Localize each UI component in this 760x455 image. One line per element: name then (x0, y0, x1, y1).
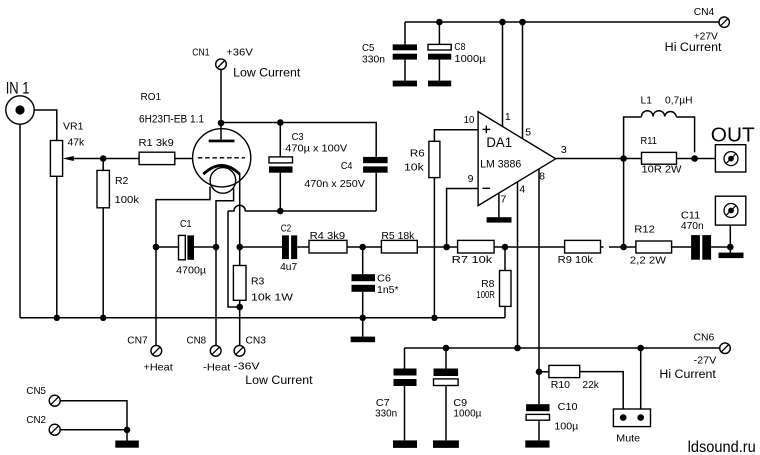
svg-text:L1: L1 (641, 94, 653, 106)
svg-text:100k: 100k (115, 194, 140, 206)
resistor R2 (97, 159, 140, 318)
grid dashed line (198, 157, 245, 159)
svg-text:6Н23П-ЕВ 1.1: 6Н23П-ЕВ 1.1 (139, 113, 204, 125)
svg-text:R12: R12 (634, 224, 655, 236)
svg-text:0,7µH: 0,7µH (665, 94, 693, 106)
wire: pin 9 inverting input (447, 189, 479, 248)
resistor R12 (624, 224, 692, 267)
svg-text:Hi Current: Hi Current (665, 40, 722, 54)
resistor R9 (505, 240, 624, 265)
wire: anode junction to C3 (221, 122, 280, 124)
wire: pin 5 from top rail (522, 22, 524, 141)
node: CN5/CN2 junction (124, 427, 131, 434)
svg-text:R10: R10 (551, 379, 570, 391)
svg-text:4: 4 (519, 183, 525, 195)
wire: output node down to feedback row (623, 159, 625, 248)
cathode arc (203, 166, 240, 175)
wire: output pin 3 (556, 158, 624, 160)
svg-text:DA1: DA1 (486, 135, 512, 150)
wire: ground rail (20, 317, 505, 319)
svg-text:R6: R6 (410, 147, 425, 159)
capacitor C4 (304, 157, 387, 211)
svg-text:-36V: -36V (234, 360, 260, 372)
svg-text:CN6: CN6 (694, 332, 715, 344)
svg-text:470n: 470n (681, 220, 704, 232)
capacitor C9 (polarized) (434, 348, 482, 440)
svg-text:5: 5 (525, 127, 531, 139)
output jack OUT (hot) (711, 124, 755, 172)
node: R6/R8 on ground rail (431, 315, 437, 321)
ground symbol C9 (433, 440, 459, 448)
svg-text:8: 8 (539, 170, 545, 182)
resistor R6 (404, 130, 478, 318)
wire: IN1 center to VR1 top (34, 110, 57, 141)
svg-text:Hi Current: Hi Current (659, 367, 716, 381)
svg-text:IN 1: IN 1 (6, 80, 30, 98)
svg-text:Low Current: Low Current (245, 373, 313, 387)
node: output junction (620, 155, 627, 162)
triode RO1 6N23P-EV (139, 91, 251, 193)
svg-text:CN5: CN5 (26, 385, 46, 397)
op-amp DA1 LM 3886 (464, 111, 567, 206)
svg-text:C5: C5 (362, 42, 375, 54)
node: R9/R12/output junction (620, 244, 627, 251)
node: C6 on ground rail (359, 315, 366, 322)
node: pin9 / R5 / R7 junction (443, 244, 450, 251)
wire: heater pin right to C1 right (216, 189, 234, 248)
svg-text:CN3: CN3 (246, 335, 267, 347)
node: cathode / R3 / C2 junction (236, 244, 243, 251)
wire: rail down to R3 bottom (228, 211, 240, 307)
svg-text:CN2: CN2 (26, 414, 46, 426)
wire: cathode down to signal rail (239, 174, 241, 247)
node: R4/R5/C6 junction (359, 244, 366, 251)
node: C11 / jack ground (727, 244, 734, 251)
svg-text:R2: R2 (115, 175, 129, 187)
wire: to OUT jack (695, 158, 716, 160)
svg-text:-Heat: -Heat (203, 361, 230, 373)
capacitor C1 (polarized) (153, 218, 220, 276)
svg-text:7: 7 (501, 193, 507, 205)
resistor R8 (476, 247, 511, 318)
node: C9 on negative rail (443, 345, 450, 352)
connector CN1 (192, 47, 301, 123)
svg-text:470µ x 100V: 470µ x 100V (285, 143, 347, 155)
capacitor C3 (polarized) (269, 119, 347, 211)
node: anode / CN1 junction (218, 120, 225, 127)
resistor R7 (447, 240, 505, 265)
ground symbol CN5/CN2 (126, 430, 128, 441)
wire: pin 8 down to mute network (538, 168, 540, 372)
svg-text:C1: C1 (180, 218, 192, 230)
resistor R10 (539, 365, 623, 409)
heater bump (210, 168, 236, 194)
mute switch (613, 348, 650, 445)
node: pin8 / R10 / C10 junction (536, 369, 543, 376)
node: pin5 on top rail (519, 19, 526, 26)
svg-text:22k: 22k (582, 379, 599, 391)
output jack (ground) (715, 196, 745, 247)
input jack IN 1 (6, 80, 35, 125)
wire: C3/C4 bottom rail with hop over cathode line (228, 205, 376, 211)
svg-text:47k: 47k (68, 137, 85, 149)
inductor L1 (624, 94, 695, 158)
svg-text:LM 3886: LM 3886 (480, 159, 521, 171)
capacitor C11 (681, 209, 730, 259)
svg-text:R7 10k: R7 10k (452, 254, 493, 266)
connector CN5 (26, 385, 127, 430)
ground symbol output (729, 247, 731, 253)
ground symbol below C6 (362, 318, 364, 337)
node: R2 bottom on ground rail (100, 315, 106, 321)
potentiometer VR1 (50, 121, 84, 318)
svg-text:4700µ: 4700µ (176, 264, 206, 276)
svg-text:100µ: 100µ (554, 420, 578, 432)
svg-text:R8: R8 (481, 278, 495, 290)
wire: negative supply rail (405, 347, 720, 349)
node: R7/R8 junction (502, 244, 509, 251)
node: wiper / R1 / R2 junction (100, 155, 107, 162)
svg-text:4u7: 4u7 (280, 261, 297, 273)
svg-text:C2: C2 (281, 222, 292, 234)
connector CN7 +Heat (127, 247, 173, 373)
wire: IN1 ground down (19, 124, 21, 318)
capacitor C5 (362, 22, 417, 81)
ground symbol C10 (525, 440, 549, 447)
capacitor C2 (240, 222, 309, 273)
capacitor C10 (polarized) (526, 372, 578, 441)
node: R3 bottom / CN3 (236, 304, 243, 311)
svg-text:10: 10 (464, 114, 475, 126)
node: mute on negative rail (637, 345, 644, 352)
svg-text:VR1: VR1 (63, 121, 84, 133)
ground symbol C7 (393, 440, 417, 448)
wire: pin 7 to ground (498, 191, 500, 217)
svg-text:-27V: -27V (694, 355, 717, 367)
resistor R5 (363, 230, 447, 253)
svg-text:470n x 250V: 470n x 250V (304, 178, 365, 190)
wire: pin 4 down to negative rail (517, 180, 519, 348)
svg-text:1: 1 (505, 111, 511, 123)
svg-text:R1 3k9: R1 3k9 (139, 137, 174, 149)
node: C8 on top rail (436, 19, 443, 26)
resistor R3 (233, 247, 293, 307)
resistor R4 (309, 230, 363, 253)
connector CN2 (26, 414, 127, 435)
svg-text:Mute: Mute (616, 433, 640, 445)
svg-text:OUT: OUT (711, 124, 755, 146)
svg-text:CN4: CN4 (694, 6, 715, 18)
svg-text:+36V: +36V (226, 47, 253, 59)
resistor R11 (624, 135, 695, 175)
svg-text:CN1: CN1 (192, 47, 209, 59)
svg-text:C4: C4 (341, 160, 353, 172)
svg-text:R3: R3 (251, 276, 265, 288)
svg-text:C6: C6 (377, 273, 391, 285)
node: pin1 on top rail (499, 19, 506, 26)
svg-text:100R: 100R (476, 289, 495, 301)
node: R11/L1 right junction (691, 155, 698, 162)
svg-text:+Heat: +Heat (144, 361, 173, 373)
svg-text:10k: 10k (404, 162, 425, 174)
svg-text:Low Current: Low Current (233, 65, 301, 79)
svg-text:R11: R11 (641, 135, 658, 147)
svg-text:10R 2W: 10R 2W (642, 164, 682, 176)
wire: heater pin left to C1 left (156, 187, 210, 248)
svg-text:C3: C3 (292, 131, 304, 143)
capacitor C7 (375, 348, 416, 440)
svg-text:1000µ: 1000µ (454, 53, 485, 65)
wire: positive top rail (405, 21, 719, 23)
ground symbol C5 (393, 81, 417, 87)
svg-text:ldsound.ru: ldsound.ru (688, 439, 756, 455)
connector CN3 -36V (234, 307, 313, 387)
svg-text:R4 3k9: R4 3k9 (310, 230, 346, 242)
node: C3 bottom (277, 208, 284, 215)
VR1 wiper arrow (63, 156, 103, 161)
capacitor C8 (polarized) (428, 22, 486, 81)
node: pin4 on negative rail (514, 345, 521, 352)
svg-text:1n5*: 1n5* (377, 284, 399, 296)
connector CN8 -Heat (187, 247, 231, 373)
svg-text:CN8: CN8 (187, 335, 207, 347)
svg-text:330n: 330n (362, 54, 385, 66)
svg-text:CN7: CN7 (127, 335, 148, 347)
svg-text:9: 9 (468, 173, 474, 185)
svg-text:2,2 2W: 2,2 2W (630, 254, 666, 266)
svg-text:R9 10k: R9 10k (558, 254, 594, 266)
wire: top link C3 to C4 (280, 123, 376, 157)
ground symbol C8 (428, 81, 451, 87)
connector CN4 (665, 6, 730, 54)
svg-text:C8: C8 (454, 41, 465, 53)
node: VR1 bottom on ground rail (54, 315, 60, 321)
wire: pin 1 from top rail (502, 22, 504, 128)
svg-text:1000µ: 1000µ (453, 407, 481, 419)
ground symbol pin 7 (487, 217, 512, 222)
svg-text:3: 3 (561, 144, 567, 156)
svg-text:R5 18k: R5 18k (381, 230, 415, 242)
svg-text:330n: 330n (375, 407, 397, 419)
capacitor C6 (352, 247, 399, 318)
svg-text:10k 1W: 10k 1W (251, 292, 293, 304)
resistor R1 (103, 137, 193, 165)
svg-text:C10: C10 (558, 401, 578, 413)
anode bar (209, 140, 235, 143)
svg-text:RO1: RO1 (141, 91, 162, 103)
connector CN6 (659, 332, 730, 381)
